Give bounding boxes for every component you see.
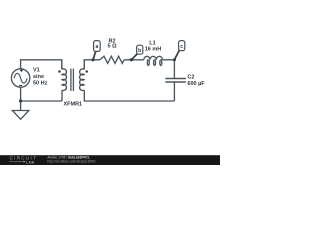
wire from inductor to node c corner xyxy=(163,60,175,78)
inductor L1 coil xyxy=(144,56,163,60)
svg-text:5 Ω: 5 Ω xyxy=(108,44,118,50)
node a flag box xyxy=(94,41,101,52)
ground xyxy=(12,111,28,120)
inductor L1 bottom loop 2 xyxy=(154,60,156,66)
transformer XFMR1 primary winding xyxy=(62,60,67,91)
junction dot node b xyxy=(130,58,133,61)
junction dot node a xyxy=(91,58,94,61)
voltage source V1 minus sign xyxy=(19,85,22,87)
svg-text:b: b xyxy=(138,48,141,54)
voltage source V1 plus sign xyxy=(20,69,23,72)
svg-text:L1: L1 xyxy=(149,41,155,47)
svg-text:LAB: LAB xyxy=(26,160,35,164)
wire top primary loop xyxy=(21,60,62,70)
transformer XFMR1 core lines xyxy=(71,69,74,91)
svg-text:Awdat_1705 / SubLab3PRCL: Awdat_1705 / SubLab3PRCL xyxy=(47,156,90,160)
resistor R2 zigzag xyxy=(100,56,124,63)
wire capacitor bottom lead xyxy=(173,82,175,101)
node b flag pointer xyxy=(131,54,137,60)
transformer XFMR1 secondary winding xyxy=(80,60,85,91)
capacitor C2 plates xyxy=(165,79,186,83)
transformer XFMR1 phase dot primary xyxy=(58,70,61,73)
node a flag pointer xyxy=(93,51,96,60)
wire from resistor to inductor xyxy=(124,59,144,61)
inductor L1 bottom loop 1 xyxy=(147,60,149,66)
svg-text:V1: V1 xyxy=(33,68,40,74)
watermark bar xyxy=(0,155,220,165)
svg-text:XFMR1: XFMR1 xyxy=(63,102,82,108)
svg-text:c: c xyxy=(180,44,183,50)
wire bottom secondary loop xyxy=(84,90,174,101)
watermark logo dot xyxy=(23,161,25,163)
svg-text:a: a xyxy=(96,44,99,50)
voltage source V1 circle xyxy=(11,69,29,87)
node c flag box xyxy=(179,41,185,51)
svg-text:CIRCUIT: CIRCUIT xyxy=(10,156,38,161)
svg-text:sine: sine xyxy=(33,74,44,80)
wire bottom primary loop xyxy=(21,87,62,110)
svg-text:C2: C2 xyxy=(187,75,194,81)
node c flag pointer xyxy=(174,50,179,59)
svg-text:50 Hz: 50 Hz xyxy=(33,81,48,87)
voltage source V1 sine wave xyxy=(14,73,27,83)
watermark logo squiggle xyxy=(10,160,23,163)
svg-text:http://circuitlab.com/c/keqby1: http://circuitlab.com/c/keqby1695fu xyxy=(47,159,96,163)
junction dot node c xyxy=(173,58,176,61)
inductor L1 bottom loop 3 xyxy=(160,60,162,66)
svg-text:16 mH: 16 mH xyxy=(145,46,162,52)
transformer XFMR1 phase dot secondary xyxy=(85,70,88,73)
junction dot at V1 ground node xyxy=(19,99,22,102)
svg-text:600 µF: 600 µF xyxy=(187,81,205,87)
node b flag box xyxy=(137,45,143,54)
wire secondary top from transformer to node a xyxy=(84,60,100,70)
